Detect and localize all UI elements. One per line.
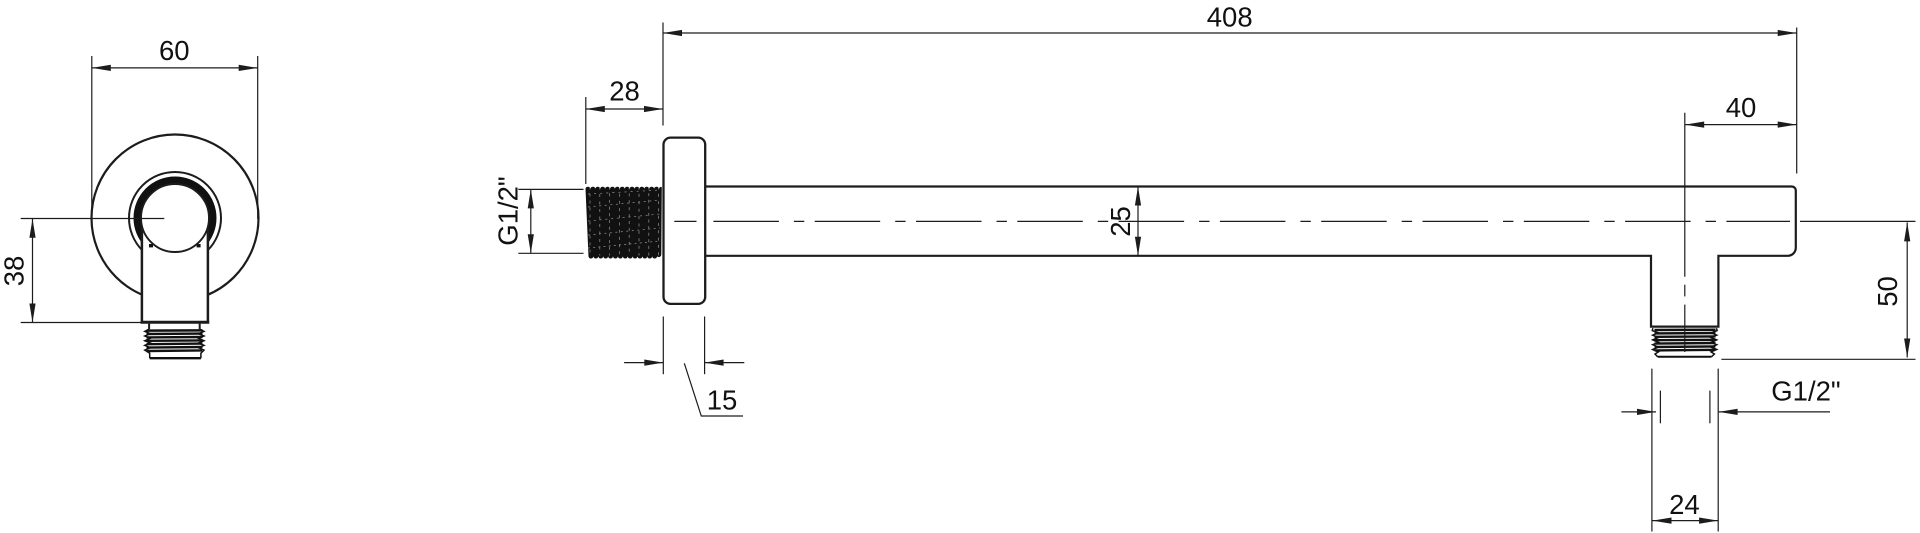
dimension 408: dimension line with arrows — [663, 30, 1797, 36]
svg-text:15: 15 — [707, 385, 738, 416]
svg-text:50: 50 — [1872, 276, 1903, 307]
outer escutcheon circle r83.5 — [92, 135, 259, 302]
dimension 25: dimension line with arrows — [1135, 187, 1141, 256]
svg-text:25: 25 — [1105, 206, 1136, 237]
outlet thread right (vertical) — [1652, 328, 1717, 357]
left thread texture white streaks — [588, 187, 660, 256]
drop centerline (solid ext + dash-dot) — [1684, 113, 1686, 352]
svg-text:38: 38 — [0, 256, 30, 287]
svg-text:408: 408 — [1207, 2, 1253, 33]
dimension G1/2 right: arrows and leader — [1621, 409, 1830, 415]
main centerline (dash-dot) along pipe — [713, 220, 1790, 222]
body rectangle (white over rings) — [142, 215, 208, 322]
thick ring r37.3 — [138, 181, 213, 256]
dimension 15: leader line — [684, 363, 743, 416]
ring end tick left — [149, 244, 153, 247]
dimension G1/2 right: extension lines — [1652, 369, 1718, 532]
dimension 38: dimension line with arrows — [29, 219, 35, 323]
dimension 15: extension lines — [663, 317, 704, 375]
front outlet thread — [145, 329, 204, 358]
main centerline (dash-dot): first dash inside flange — [674, 220, 696, 222]
inner circle r34 — [141, 184, 209, 252]
dimension 50: dimension line with arrows — [1904, 222, 1910, 357]
dimension G1/2 left: dimension line with arrows — [528, 189, 534, 253]
svg-text:60: 60 — [159, 35, 190, 66]
ring outer circle r46 — [129, 172, 221, 264]
pipe outline — [705, 187, 1796, 327]
front outlet neck — [149, 324, 200, 330]
dimension G1/2 left: extension lines — [518, 189, 583, 253]
dimension 28: left extension line — [585, 97, 587, 184]
dimension 60: extension lines — [92, 56, 258, 219]
svg-text:28: 28 — [609, 76, 640, 107]
dimension 60: dimension line with arrows — [92, 65, 258, 71]
dimension 24: dimension line with arrows — [1653, 518, 1719, 524]
svg-text:G1/2": G1/2" — [1771, 376, 1840, 407]
svg-text:24: 24 — [1669, 489, 1700, 520]
wall flange (rounded rect) — [664, 138, 706, 304]
svg-text:40: 40 — [1726, 92, 1757, 123]
dimension 40: dimension line with arrows — [1685, 122, 1797, 128]
dimension 15: arrows outside — [624, 360, 744, 366]
dimension 408: right extension line — [1796, 28, 1798, 174]
ring end tick right — [197, 244, 201, 247]
dimension 28: dimension line with arrows — [586, 106, 663, 112]
svg-text:G1/2": G1/2" — [493, 176, 524, 245]
centerline horizontal of front view — [21, 218, 165, 220]
dimension 38: bottom extension line — [21, 322, 142, 324]
left male thread (black) — [586, 187, 662, 259]
dimension 50: extension lines — [1721, 221, 1915, 359]
dimension 408: left extension line — [662, 23, 664, 126]
